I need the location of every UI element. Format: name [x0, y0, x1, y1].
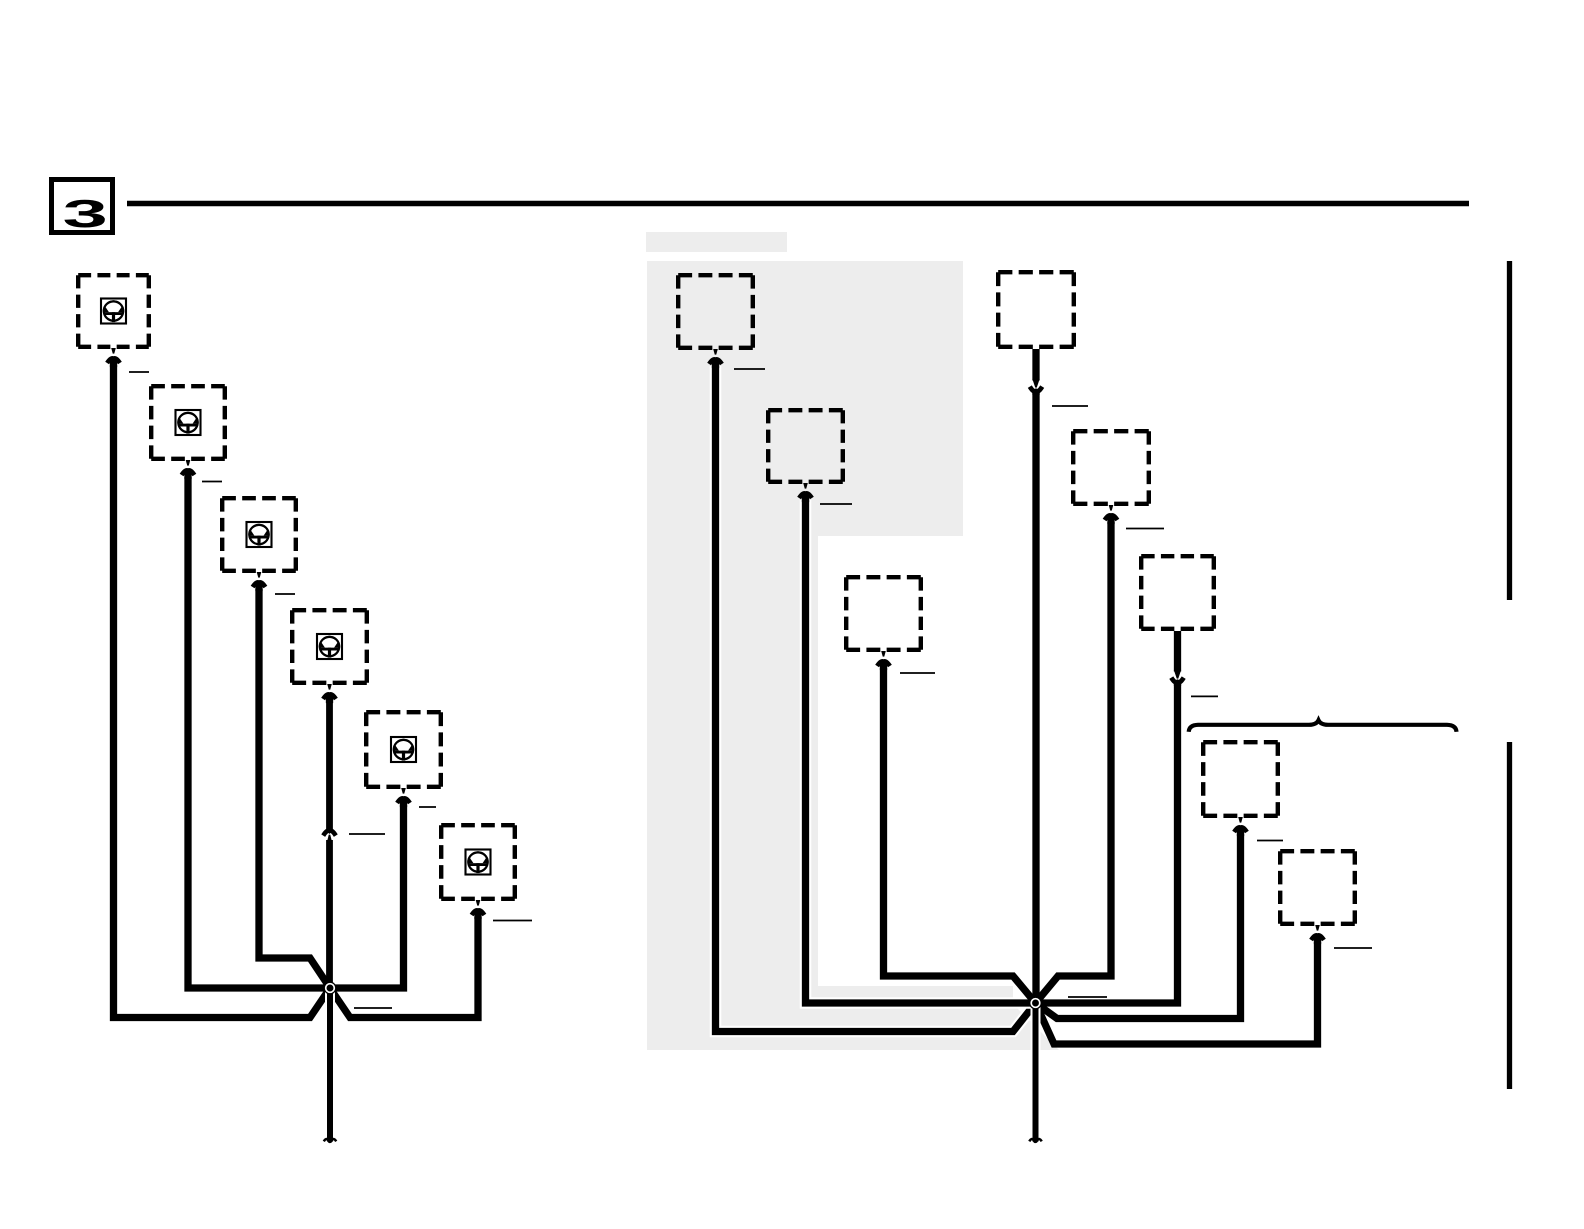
wire from junction JR up to connector R7 — [1036, 834, 1241, 1019]
speaker box L1 (dashed outline) — [78, 275, 149, 347]
ground lead below junction JR — [1031, 1003, 1041, 1142]
wire from connector R4 down to junction JR (upper segment) — [1032, 349, 1039, 381]
page number box "3" — [52, 180, 113, 233]
wire label line for R8 — [1334, 947, 1372, 949]
arrow into box R5 (pointing up) — [1105, 505, 1118, 524]
wire label line at junction JL — [354, 1007, 392, 1009]
wire from connector R2 to junction JR — [806, 500, 1036, 1003]
wire label line for R7 — [1257, 840, 1283, 842]
arrow into box R7 (pointing up) — [1234, 817, 1247, 836]
ground arrow below junction JL — [324, 1139, 336, 1142]
loudspeaker symbol in box L3 — [247, 522, 272, 547]
arrow into box R1 (pointing up) — [709, 349, 722, 368]
loudspeaker symbol in box L5 — [391, 737, 416, 762]
wire label line for R6 — [1191, 695, 1218, 697]
loudspeaker symbol in box L2 — [176, 410, 201, 435]
connector box R4 (dashed outline) — [998, 272, 1074, 347]
connector box R3 (dashed outline) — [846, 577, 921, 650]
arrow into box R3 (pointing up) — [877, 651, 890, 670]
arrow into box L6 (pointing up) — [472, 900, 485, 919]
arrow into box R2 (pointing up) — [799, 483, 812, 502]
speaker box L2 (dashed outline) — [151, 386, 225, 459]
loudspeaker symbol in box L4 — [317, 634, 342, 659]
flow arrow on wire L4 (pointing up) — [323, 831, 336, 836]
ground arrow below junction JR — [1029, 1139, 1041, 1142]
wire label line for L2 — [202, 481, 222, 483]
arrow into box L1 (pointing up) — [107, 348, 120, 367]
wire from connector R6 to junction JR (upper segment) — [1174, 631, 1181, 672]
side bus bar (lower segment) — [1507, 742, 1512, 1089]
connector box R6 (dashed outline) — [1141, 556, 1214, 629]
wire from speaker L2 to junction JL — [188, 477, 330, 988]
connector box R8 (dashed outline) — [1280, 851, 1355, 924]
wire from connector R5 to junction JR — [1036, 522, 1112, 1003]
wire from speaker L1 to junction JL — [114, 365, 331, 1018]
wire from speaker L3 to junction JL — [259, 589, 330, 988]
wire label line at junction JR — [1068, 996, 1107, 998]
wire from connector R3 to junction JR — [884, 668, 1036, 1003]
wire label line for R5 — [1126, 528, 1164, 530]
shaded background of right-hand circuit group — [647, 261, 1059, 1050]
svg-text:3: 3 — [63, 191, 108, 235]
connector box R1 (dashed outline) — [678, 275, 753, 348]
wire label line for R4 — [1052, 405, 1088, 407]
wire from connector R4 down to junction JR (lower segment) — [1032, 392, 1039, 1003]
wire label line for L3 — [275, 593, 295, 595]
junction node JR (splice) — [1029, 997, 1042, 1010]
wire from junction JR up to connector R8 — [1036, 942, 1318, 1044]
wire label line for R2 — [820, 503, 852, 505]
arrow into box L2 (pointing up) — [182, 460, 195, 479]
shaded strip (top of right-hand circuit group) — [646, 232, 787, 252]
horizontal brace over connector group — [1189, 720, 1457, 732]
wire label line for L4 — [349, 833, 385, 835]
arrow into box L3 (pointing up) — [253, 572, 266, 591]
wire from connector R6 to junction JR (lower segment) — [1036, 683, 1178, 1003]
flow arrow on wire R4 (pointing down) — [1030, 379, 1042, 395]
connector box R7 (dashed outline) — [1203, 742, 1278, 816]
loudspeaker symbol in box L6 — [466, 850, 491, 875]
wire from junction JL up to speaker L4 (upper segment) — [326, 701, 333, 829]
connector box R2 (dashed outline) — [768, 410, 843, 482]
arrow into box L4 (pointing up) — [323, 684, 336, 703]
connector box R5 (dashed outline) — [1073, 431, 1149, 504]
wire from speaker L6 to junction JL — [330, 917, 478, 1018]
wire from junction JL up to speaker L4 (lower segment) — [326, 840, 333, 988]
speaker box L4 (dashed outline) — [292, 610, 367, 683]
speaker box L3 (dashed outline) — [222, 498, 296, 571]
wire label line for L5 — [419, 806, 436, 808]
wire label line for L1 — [129, 371, 149, 373]
side bus bar (upper segment) — [1507, 261, 1512, 600]
wire label line for R1 — [734, 368, 765, 370]
wire label line for R3 — [900, 672, 935, 674]
speaker box L6 (dashed outline) — [441, 825, 515, 899]
ground lead below junction JL — [325, 988, 335, 1142]
loudspeaker symbol in box L1 — [101, 299, 126, 324]
arrow into box L5 (pointing up) — [397, 788, 410, 807]
speaker box L5 (dashed outline) — [366, 712, 441, 787]
junction node JL (splice) — [324, 982, 337, 995]
wire from connector R1 to junction JR — [716, 366, 1036, 1032]
wire label line for L6 — [493, 920, 532, 922]
arrow into box R8 (pointing up) — [1311, 925, 1324, 944]
top horizontal rule — [127, 201, 1469, 206]
flow arrow on wire R6 (pointing down) — [1171, 670, 1183, 686]
wire from speaker L5 to junction JL — [330, 805, 404, 988]
